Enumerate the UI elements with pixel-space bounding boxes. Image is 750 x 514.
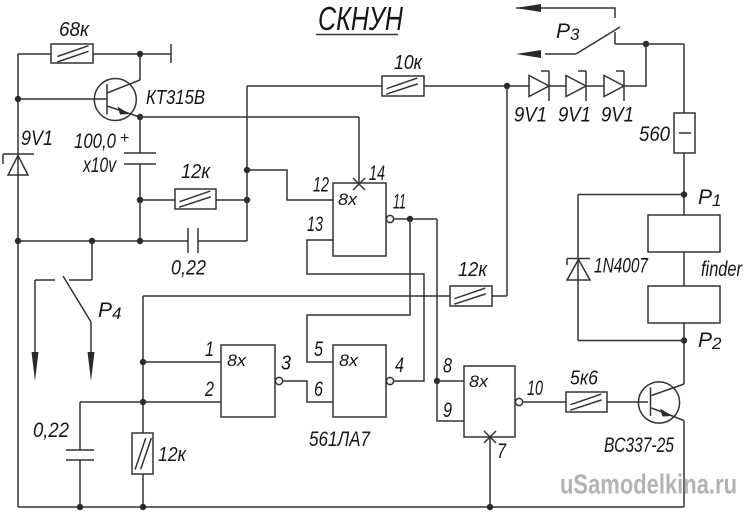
svg-text:1: 1 [205, 338, 214, 361]
gate U1b 8x pins 1,2,3 [204, 338, 291, 417]
transistor Q2 ВС337-25 [604, 382, 684, 457]
node pin11 branch [407, 216, 413, 222]
svg-text:uSamodelkina.ru: uSamodelkina.ru [560, 469, 737, 500]
svg-text:Р2: Р2 [698, 329, 722, 353]
capacitor C 100,0 x10v [74, 130, 156, 177]
diode VD 1N4007 [567, 255, 649, 281]
node diode chain left [504, 83, 510, 89]
svg-text:6: 6 [314, 378, 323, 401]
svg-text:2: 2 [204, 378, 214, 401]
wire pin14 riser [358, 117, 360, 184]
wire mid rail [18, 240, 188, 242]
wire pin12 jog [247, 170, 333, 200]
gate U1d 8x pins 8,9,10,7 [443, 355, 543, 464]
wire 12к-top left lead [140, 199, 175, 201]
node pin8 junction [434, 378, 440, 384]
node pin7 bottom [487, 504, 493, 510]
wire 10к to diode chain [424, 85, 529, 87]
terminal bar [170, 44, 172, 63]
resistor R 560 [639, 113, 695, 153]
zener diode VD 9V1 b [558, 71, 591, 127]
node cap bottom [77, 504, 83, 510]
wire 1N4007 top [578, 194, 684, 196]
svg-text:+: + [120, 130, 129, 147]
wire riser x437 to pin8 [436, 219, 438, 381]
wire diode chain right riser [624, 44, 646, 86]
node pin2 junction [140, 399, 146, 405]
switch P3 [516, 4, 620, 58]
wire feedback pin4 to pin13 [307, 240, 424, 381]
wire pin7 riser [489, 437, 491, 507]
pin 14 cross mark [353, 178, 365, 190]
resistor R 12к top [175, 161, 216, 209]
svg-text:561ЛА7: 561ЛА7 [309, 428, 371, 451]
svg-text:0,22: 0,22 [171, 257, 206, 280]
svg-text:8: 8 [443, 355, 452, 378]
wire pin8 [437, 380, 464, 382]
node 12к-top right [244, 197, 250, 203]
resistor R 12к right [450, 259, 492, 306]
svg-text:0,22: 0,22 [33, 419, 69, 442]
wire bottom rail [18, 506, 684, 508]
zener diode VD 9V1 left [3, 127, 53, 175]
wire left rail [17, 54, 19, 507]
wire top-left [18, 53, 51, 55]
svg-text:х10v: х10v [82, 154, 117, 177]
svg-text:14: 14 [369, 162, 385, 185]
svg-text:finder: finder [701, 258, 743, 281]
wire between coils [683, 252, 685, 286]
wire 12к-bottom to rail [142, 474, 144, 507]
gate U1c 8x pins 5,6,4 [314, 338, 404, 417]
wire to 10к [247, 85, 382, 87]
relay coil P2 [648, 286, 720, 323]
wire 5к6 to base [607, 401, 648, 403]
node diode riser top [643, 41, 649, 47]
wire pin10 to 5к6 [523, 401, 566, 403]
svg-text:8х: 8х [469, 372, 489, 391]
svg-text:СКНУН: СКНУН [318, 0, 403, 37]
node pin12 branch [244, 167, 250, 173]
svg-text:12к: 12к [458, 259, 488, 281]
svg-text:Р3: Р3 [556, 20, 580, 44]
svg-text:10: 10 [527, 377, 543, 400]
svg-text:5к6: 5к6 [570, 368, 599, 390]
svg-text:8х: 8х [339, 351, 359, 370]
wire corner to 560 [683, 44, 685, 113]
svg-text:Р1: Р1 [698, 186, 721, 210]
svg-text:68к: 68к [59, 19, 90, 41]
svg-text:9: 9 [443, 399, 452, 422]
svg-text:КТ315В: КТ315В [146, 87, 205, 109]
svg-text:9V1: 9V1 [601, 104, 634, 127]
wire collector riser [139, 54, 141, 80]
wire 12к-right row [143, 295, 450, 297]
svg-text:ВС337-25: ВС337-25 [604, 434, 674, 457]
node 12к-top left [137, 197, 143, 203]
node collector junction [137, 51, 143, 57]
wire P3 common to corner [615, 43, 684, 45]
resistor R 10к [382, 52, 424, 96]
wire pin1 [143, 361, 221, 363]
svg-text:12: 12 [313, 174, 329, 197]
wire collector riser to P2 [683, 341, 685, 385]
wire pin9 jog [437, 381, 464, 421]
node pin1 junction [140, 359, 146, 365]
zener diode VD 9V1 a [514, 71, 549, 127]
wire 560 to P1 node [683, 153, 685, 215]
wire pin2 [80, 401, 221, 403]
wire 68к to terminal [93, 53, 171, 55]
wire diode b-c [586, 85, 604, 87]
wire cap to rail [139, 164, 141, 241]
wire pin3 to pin6 [283, 381, 333, 402]
wire 1N4007 branch [577, 195, 579, 341]
gate U1c output bubble [386, 377, 393, 384]
wire riser x507 [506, 86, 508, 296]
svg-text:10к: 10к [394, 52, 423, 74]
wire pin11 output [394, 218, 437, 220]
gate U1d output bubble [515, 398, 522, 405]
svg-text:13: 13 [307, 213, 323, 236]
capacitor C 0,22 bottom [33, 402, 94, 507]
zener diode VD 9V1 c [601, 71, 634, 127]
svg-text:100,0: 100,0 [74, 130, 116, 153]
wire 12к-right to riser [492, 295, 507, 297]
resistor R 68к [51, 19, 93, 63]
wire left branch x143 [142, 296, 144, 433]
wire base [18, 98, 107, 100]
svg-text:9V1: 9V1 [514, 104, 547, 127]
node P1 [681, 191, 687, 197]
transistor Q1 КТ315В [94, 79, 205, 121]
svg-text:12к: 12к [158, 444, 187, 466]
resistor R 5к6 [566, 368, 607, 413]
svg-text:11: 11 [393, 191, 406, 214]
node P2 [681, 337, 687, 343]
wire riser x247 [246, 86, 248, 241]
svg-text:12к: 12к [181, 161, 211, 183]
gate U1b output bubble [275, 377, 282, 384]
relay coil P1 [648, 215, 720, 252]
svg-text:560: 560 [639, 123, 670, 146]
title СКНУН [316, 0, 403, 37]
gate U1a output bubble [386, 215, 393, 222]
svg-text:9V1: 9V1 [558, 104, 591, 127]
wire emitter down to cap [139, 117, 141, 153]
resistor R 12к bottom [132, 433, 187, 474]
wire 12к-top right lead [216, 199, 247, 201]
wire emitter to bottom rail [683, 421, 685, 508]
wire pin11 to pin5 path [307, 219, 410, 362]
svg-text:7: 7 [497, 440, 507, 463]
wire coil P2 to node [683, 323, 685, 341]
wire diode a-b [549, 85, 566, 87]
wire emitter to pin14 riser [140, 116, 359, 118]
pin 7 cross mark [484, 431, 496, 443]
capacitor C 0,22 top [171, 228, 206, 280]
svg-text:1N4007: 1N4007 [594, 255, 649, 278]
switch P4 [32, 238, 122, 381]
svg-text:9V1: 9V1 [21, 127, 53, 150]
gate U1a 8x pins 12,13,14,11 [307, 162, 406, 256]
svg-text:3: 3 [281, 353, 291, 375]
svg-text:5: 5 [314, 338, 323, 361]
svg-text:4: 4 [395, 354, 404, 377]
node emitter junction [137, 114, 143, 120]
svg-text:8х: 8х [227, 351, 247, 370]
node base-rail junction [15, 96, 21, 102]
svg-text:8х: 8х [338, 190, 358, 209]
node mid rail cap junction [137, 238, 143, 244]
wire 1N4007 bottom [578, 340, 684, 342]
node 12к bottom [140, 504, 146, 510]
node left rail / mid rail [15, 238, 21, 244]
svg-text:Р4: Р4 [98, 299, 121, 323]
wire cap to riser [198, 240, 247, 242]
